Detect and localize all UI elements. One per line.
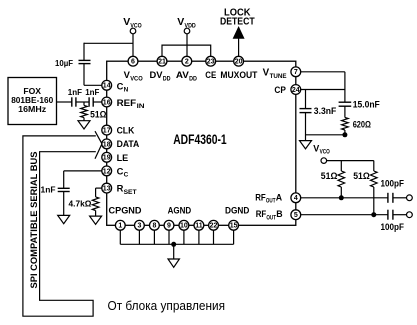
svg-text:RF: RF	[256, 209, 267, 219]
svg-text:CPGND: CPGND	[109, 205, 142, 215]
svg-text:51Ω: 51Ω	[321, 171, 338, 181]
wire CP node to 3.3nF	[305, 90, 307, 109]
junction RFoutA	[339, 195, 344, 200]
ground (RSET)	[90, 216, 102, 224]
svg-text:OUT: OUT	[266, 197, 276, 204]
pin 10	[179, 220, 189, 230]
svg-text:17: 17	[103, 128, 111, 135]
capacitor 1nF (second coupling cap)	[88, 97, 90, 106]
svg-text:3: 3	[137, 223, 141, 230]
pin 24	[291, 85, 301, 95]
svg-text:4.7kΩ: 4.7kΩ	[69, 199, 92, 209]
resistor 4.7k ohm RSET	[92, 197, 99, 211]
svg-text:6: 6	[131, 59, 135, 66]
svg-text:SET: SET	[124, 189, 137, 196]
svg-text:4: 4	[294, 195, 298, 202]
svg-text:21: 21	[158, 59, 166, 66]
svg-text:620Ω: 620Ω	[353, 119, 371, 129]
pin 13	[102, 183, 112, 193]
junction RFoutB	[371, 212, 376, 217]
svg-text:AV: AV	[176, 69, 190, 80]
svg-text:13: 13	[103, 186, 111, 193]
svg-text:LE: LE	[117, 152, 129, 163]
wire pin 24 CP to filter	[301, 89, 345, 91]
bus SPI COMPATIBLE SERIAL BUS (hollow L-shaped bus)	[23, 136, 96, 316]
wire 10uF to pin 14 CN	[83, 64, 85, 86]
capacitor 3.3nF	[300, 108, 312, 110]
svg-text:REF: REF	[117, 97, 137, 108]
resistor 51 ohm (RFoutA pull-up)	[338, 171, 345, 187]
node RFoutA terminal	[407, 195, 413, 201]
capacitor 1nF (CC bypass)	[58, 187, 70, 189]
svg-text:100pF: 100pF	[381, 222, 405, 232]
capacitor 1nF (first coupling cap)	[71, 97, 73, 106]
svg-text:1nF: 1nF	[85, 87, 99, 97]
svg-text:A: A	[276, 192, 283, 202]
capacitor 100pF (RFoutB)	[387, 210, 389, 220]
wire rail to pin 21 DVDD	[161, 45, 163, 57]
svg-text:51Ω: 51Ω	[90, 109, 106, 119]
pin 6	[128, 56, 138, 66]
svg-text:V: V	[313, 144, 319, 154]
junction loop filter	[342, 132, 347, 137]
arrow lock detect	[233, 27, 243, 38]
svg-text:5: 5	[294, 212, 298, 219]
svg-text:DETECT: DETECT	[220, 17, 255, 28]
pin 20	[234, 56, 244, 66]
pin 17	[102, 125, 112, 135]
svg-text:N: N	[124, 87, 129, 94]
wire ground stubs from GND pins	[119, 230, 121, 244]
svg-text:DATA: DATA	[117, 138, 140, 149]
svg-text:От блока управления: От блока управления	[108, 298, 226, 313]
wire pin 13 RSET to resistor	[96, 187, 102, 189]
wire VVCO to pin 6	[132, 34, 134, 57]
wire VVCO rail to 10uF	[84, 42, 133, 44]
wire junction to ground	[173, 244, 175, 259]
svg-text:14: 14	[103, 83, 111, 90]
svg-text:CE: CE	[205, 69, 216, 80]
svg-text:CP: CP	[274, 84, 286, 95]
pin 23	[206, 56, 216, 66]
svg-text:10: 10	[180, 223, 188, 230]
svg-text:B: B	[276, 209, 282, 219]
svg-text:V: V	[177, 16, 184, 28]
pin 3	[135, 220, 145, 230]
svg-text:2: 2	[185, 59, 189, 66]
resistor 51 ohm (RFoutB pull-up)	[371, 171, 378, 187]
svg-text:DGND: DGND	[225, 205, 249, 215]
svg-text:18: 18	[103, 141, 111, 148]
wire resistor to RFoutA line	[340, 187, 342, 198]
wire resistor to RFoutB line	[373, 187, 375, 215]
svg-text:OUT: OUT	[266, 214, 276, 221]
svg-text:V: V	[123, 16, 130, 28]
svg-text:7: 7	[294, 69, 298, 76]
wire RFoutB	[301, 214, 388, 216]
svg-text:ADF4360-1: ADF4360-1	[173, 132, 227, 147]
svg-text:MUXOUT: MUXOUT	[220, 69, 257, 80]
wire ground bus	[120, 243, 233, 245]
wire VVDD to pin 2 AVDD	[186, 34, 188, 57]
svg-text:VCO: VCO	[320, 149, 330, 156]
wire filter bottom	[306, 134, 345, 136]
svg-text:RF: RF	[255, 192, 266, 202]
ground (CC bypass)	[58, 215, 70, 223]
ground (REFIN shunt)	[78, 121, 90, 129]
pin 16	[102, 97, 112, 107]
svg-text:DV: DV	[150, 69, 164, 80]
svg-text:19: 19	[103, 155, 111, 162]
pin 8	[150, 220, 160, 230]
junction ground bus	[171, 242, 176, 247]
svg-text:100pF: 100pF	[381, 179, 405, 189]
svg-text:16: 16	[103, 99, 111, 106]
svg-text:20: 20	[235, 59, 243, 66]
pin 4	[291, 193, 301, 203]
svg-text:DD: DD	[189, 75, 197, 82]
wire resistor to ground	[83, 118, 85, 121]
pin 19	[102, 152, 112, 162]
wire to second pull-up	[373, 161, 375, 171]
pin 18	[102, 139, 112, 149]
pin 5	[291, 210, 301, 220]
wire pin 7 VTUNE to filter	[301, 71, 345, 73]
node RFoutB terminal	[407, 212, 413, 218]
svg-text:DD: DD	[163, 75, 171, 82]
wire cap to pin 16 REFIN	[93, 101, 102, 103]
capacitor 15.0nF	[339, 101, 352, 103]
resistor 51 ohm shunt at REFIN	[83, 102, 85, 105]
wire 3.3nF to ground	[305, 113, 307, 141]
svg-text:VCO: VCO	[130, 75, 143, 82]
svg-text:C: C	[117, 80, 124, 91]
wire RFoutA	[301, 197, 388, 199]
svg-text:TUNE: TUNE	[270, 73, 288, 80]
svg-text:24: 24	[292, 87, 300, 94]
pin 7	[291, 67, 301, 77]
wire pin 20 MUXOUT to lock detect arrow	[238, 38, 240, 56]
svg-text:10µF: 10µF	[55, 58, 73, 68]
op IC U1 ADF4360-1 body outline	[107, 61, 296, 225]
svg-text:11: 11	[195, 223, 203, 230]
pin 2	[182, 56, 192, 66]
wire resistor to ground	[95, 211, 97, 217]
pin 9	[164, 220, 174, 230]
wire pin 12 CC to bypass cap	[64, 170, 102, 172]
resistor 620 ohm	[342, 118, 349, 131]
svg-text:C: C	[124, 172, 129, 179]
wire cap to RFoutA terminal	[393, 197, 407, 199]
svg-text:1nF: 1nF	[68, 87, 82, 97]
svg-text:R: R	[117, 183, 124, 194]
wire oscillator output	[57, 101, 72, 103]
svg-text:SPI COMPATIBLE SERIAL BUS: SPI COMPATIBLE SERIAL BUS	[29, 152, 40, 289]
wire 620 ohm to junction	[344, 130, 346, 135]
svg-text:CLK: CLK	[117, 124, 135, 135]
wire cap to 620 ohm	[344, 106, 346, 117]
pin 21	[157, 56, 167, 66]
svg-text:IN: IN	[137, 103, 145, 110]
svg-text:12: 12	[103, 168, 111, 175]
svg-text:15: 15	[230, 223, 238, 230]
wire rail to pin 23 CE	[210, 45, 212, 57]
capacitor 10uF (CN to VVCO)	[79, 59, 91, 61]
svg-text:1: 1	[118, 223, 122, 230]
bus arrowhead into CLK/DATA/LE pins	[95, 131, 102, 144]
pin 12	[102, 166, 112, 176]
ground (loop filter)	[300, 141, 312, 149]
svg-text:8: 8	[152, 223, 156, 230]
pin 15	[229, 220, 239, 230]
svg-text:51Ω: 51Ω	[353, 171, 370, 181]
svg-text:C: C	[117, 165, 124, 176]
svg-text:V: V	[263, 68, 270, 79]
svg-text:AGND: AGND	[168, 205, 192, 215]
wire VVCO to pull-up resistors	[327, 160, 374, 162]
wire cap to RFoutB terminal	[393, 214, 407, 216]
pin 22	[209, 220, 219, 230]
svg-text:16MHz: 16MHz	[18, 104, 46, 114]
wire cap to ground	[63, 192, 65, 216]
svg-text:9: 9	[167, 223, 171, 230]
capacitor 100pF (RFoutA)	[387, 193, 389, 203]
svg-text:22: 22	[210, 223, 218, 230]
ground (main)	[168, 259, 179, 267]
pin 1	[115, 220, 125, 230]
svg-text:3.3nF: 3.3nF	[314, 106, 337, 116]
svg-text:23: 23	[207, 59, 215, 66]
svg-text:15.0nF: 15.0nF	[353, 100, 381, 110]
pin 11	[194, 220, 204, 230]
wire VDD rail	[162, 44, 211, 46]
oscillator X1 FOX 801BE-160 16MHz	[8, 78, 57, 125]
svg-text:1nF: 1nF	[41, 185, 56, 195]
wire between coupling caps	[76, 101, 89, 103]
pin 14	[102, 80, 112, 90]
